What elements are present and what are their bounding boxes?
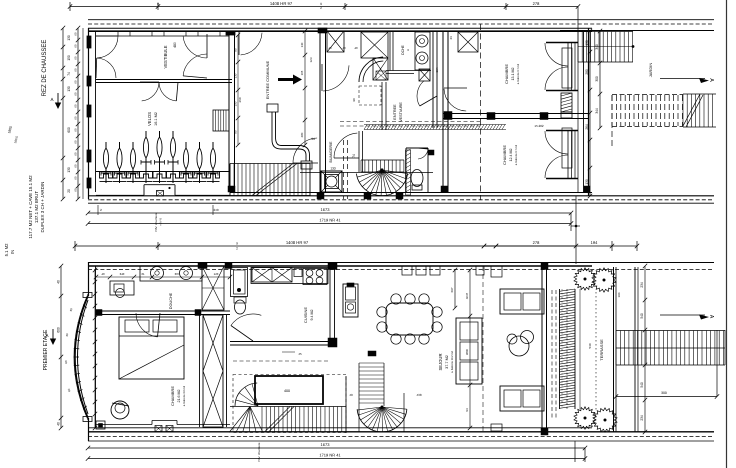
wall below douche xyxy=(96,310,230,312)
black wall chunks separating wall xyxy=(487,113,495,120)
stair opening thick rect xyxy=(255,376,323,404)
corridor entrance door arc xyxy=(241,33,262,55)
sejour dim chain x455 xyxy=(454,270,456,308)
top dimension drop line at x=578 xyxy=(577,7,579,31)
window mullion lines xyxy=(571,43,573,90)
svg-text:140: 140 xyxy=(300,42,304,47)
vestibule left door swing 2 xyxy=(97,58,116,78)
terrace connector verticals xyxy=(724,330,726,365)
svg-text:137.1 M2 BRUT: 137.1 M2 BRUT xyxy=(34,191,39,224)
svg-text:VESTIBULE: VESTIBULE xyxy=(163,45,168,68)
connector vertical x=576 xyxy=(575,196,577,264)
small duct box xyxy=(373,58,388,80)
right dim line 300 xyxy=(616,396,717,398)
tree bottom 2 xyxy=(593,408,617,432)
chambre13 door lower xyxy=(545,67,568,90)
svg-text:60: 60 xyxy=(74,104,78,108)
top dimension line 1408 HR 97 xyxy=(70,6,578,8)
main stair lower run xyxy=(230,406,346,408)
bottom connector vertical xyxy=(574,441,576,462)
black chunk chambre wall top xyxy=(198,263,207,269)
wall right of chambre xyxy=(199,315,201,427)
svg-text:60: 60 xyxy=(74,116,78,120)
svg-text:60: 60 xyxy=(74,44,78,48)
dche walls xyxy=(389,31,391,71)
douche counter xyxy=(140,266,202,281)
svg-text:280: 280 xyxy=(300,132,304,137)
svg-text:80: 80 xyxy=(234,130,238,134)
svg-text:234: 234 xyxy=(640,282,644,288)
svg-text:61: 61 xyxy=(141,272,145,276)
svg-text:74: 74 xyxy=(352,154,356,158)
dim chain right of building xyxy=(589,31,591,196)
svg-text:120: 120 xyxy=(214,272,219,276)
svg-text:a. balcons 3.7 m2: a. balcons 3.7 m2 xyxy=(514,144,518,165)
door arc corridor top xyxy=(293,138,317,163)
left dim chain bottom plan xyxy=(60,266,62,428)
lavabo circle 1 xyxy=(151,267,164,280)
light well square xyxy=(321,171,342,192)
left dim chain inner xyxy=(77,28,79,199)
svg-text:2: 2 xyxy=(236,246,238,250)
garden wall line xyxy=(634,267,636,432)
corner marker box xyxy=(96,421,105,429)
terrasse right wall xyxy=(613,267,615,432)
duct shaft X-box 2 xyxy=(361,32,388,58)
svg-text:A: A xyxy=(50,97,53,102)
small dim marks above 1673 xyxy=(97,205,99,215)
cuisine door arc xyxy=(231,314,261,326)
svg-text:BUANDERIE: BUANDERIE xyxy=(329,141,333,163)
bike rack rail xyxy=(96,171,230,173)
garden stair from building xyxy=(578,31,633,33)
left wall dim chain 3 xyxy=(82,28,84,199)
svg-text:60: 60 xyxy=(74,140,78,144)
dim line 1719 top plan xyxy=(88,223,571,225)
svg-text:DUPLEX 3 CH + JARDIN: DUPLEX 3 CH + JARDIN xyxy=(40,182,45,233)
chambre bottom niche xyxy=(96,424,152,426)
washer circle 2 xyxy=(416,52,428,64)
svg-text:540: 540 xyxy=(640,382,644,388)
svg-text:a. balcons 4.0 m2: a. balcons 4.0 m2 xyxy=(182,385,186,406)
garden stair lower right xyxy=(683,93,716,95)
black chunk sejour wall xyxy=(541,263,548,270)
svg-text:13.1 M2: 13.1 M2 xyxy=(511,68,515,81)
main stair diagonal xyxy=(264,407,290,433)
terrace dotted column xyxy=(595,292,597,410)
svg-text:194: 194 xyxy=(591,240,598,245)
wc door arc xyxy=(418,149,428,159)
svg-text:+0 /-6: +0 /-6 xyxy=(159,218,163,226)
vestiaire lower door xyxy=(417,81,424,106)
north arrow bottom xyxy=(660,314,705,316)
spiral staircase bottom plan xyxy=(358,363,360,406)
dining table xyxy=(386,303,433,335)
cuisine top counter xyxy=(251,268,328,284)
axis dashed line buanderie xyxy=(343,140,345,199)
cuisine closet X xyxy=(252,268,292,283)
chambre12 door lower xyxy=(545,155,568,178)
svg-text:16.1 M2: 16.1 M2 xyxy=(154,112,158,126)
vestiaire curved corner wall xyxy=(359,57,383,82)
street edge dashed line xyxy=(88,23,714,25)
svg-text:JARDIN: JARDIN xyxy=(648,63,653,78)
velos room bottom niche xyxy=(96,194,144,196)
svg-text:60: 60 xyxy=(74,32,78,36)
svg-text:540: 540 xyxy=(588,343,592,348)
tall braced closet xyxy=(203,315,223,427)
svg-text:600: 600 xyxy=(67,127,71,133)
svg-text:45: 45 xyxy=(298,352,302,356)
svg-text:SEJOUR: SEJOUR xyxy=(438,354,443,371)
svg-text:a: a xyxy=(157,1,159,5)
street edge solid line xyxy=(88,19,714,21)
svg-text:40: 40 xyxy=(328,46,332,50)
svg-text:CHAMBRE: CHAMBRE xyxy=(170,386,175,406)
bay window outer arc xyxy=(75,296,88,418)
tree top 2 xyxy=(592,268,616,292)
cuisine hob xyxy=(303,269,327,285)
velos double door to vestibule xyxy=(142,82,159,101)
chambre13 door upper xyxy=(545,43,568,66)
axis dashed vertical right wing xyxy=(480,24,482,200)
vestiaire shaft box xyxy=(458,32,478,52)
svg-text:60: 60 xyxy=(74,92,78,96)
wall velos/entree commune xyxy=(228,31,230,192)
sofa top xyxy=(500,289,544,314)
wall below vestibule xyxy=(96,79,232,81)
svg-text:A: A xyxy=(406,49,410,51)
washer counter xyxy=(415,32,430,70)
svg-text:240: 240 xyxy=(213,208,218,212)
svg-text:130: 130 xyxy=(67,167,71,173)
svg-text:105: 105 xyxy=(300,70,304,75)
hall dashed horizontals xyxy=(233,360,330,362)
svg-text:90: 90 xyxy=(352,98,356,102)
cuisine left unit bath xyxy=(231,268,248,297)
svg-text:40: 40 xyxy=(342,46,346,50)
svg-text:60: 60 xyxy=(74,128,78,132)
svg-text:ENTREE COMMUNE: ENTREE COMMUNE xyxy=(265,60,270,99)
bay window mullion ticks xyxy=(83,305,87,308)
svg-text:DOUCHE: DOUCHE xyxy=(169,292,173,309)
duct shaft X-box 1 xyxy=(327,31,344,52)
upper dim ticks row bottom plan xyxy=(96,276,230,278)
velos niche marker xyxy=(157,191,164,197)
svg-text:1673: 1673 xyxy=(321,442,331,447)
black chunk left of separating wall xyxy=(444,112,452,120)
top plan bottom wall xyxy=(88,195,714,197)
vestibule left door swing xyxy=(97,36,118,58)
svg-text:37.7 M2: 37.7 M2 xyxy=(445,355,449,369)
wall corridor/buanderie xyxy=(319,31,321,192)
dim line 1673 top plan xyxy=(88,212,571,214)
hall door arc from corridor xyxy=(323,65,349,91)
svg-text:280: 280 xyxy=(585,69,589,75)
garden stair bottom xyxy=(616,330,725,332)
glazing band xyxy=(559,289,561,409)
svg-text:60: 60 xyxy=(74,80,78,84)
window pier hatched xyxy=(561,93,572,112)
tub chair xyxy=(111,401,129,419)
spiral staircase xyxy=(382,170,408,174)
svg-text:2: 2 xyxy=(320,6,322,10)
svg-text:40: 40 xyxy=(57,422,61,426)
svg-text:5.1 M2: 5.1 M2 xyxy=(4,243,9,256)
chambre12 door lintels xyxy=(546,130,578,132)
svg-text:DCHE: DCHE xyxy=(401,44,405,54)
buanderie partition wall xyxy=(358,131,360,172)
svg-text:3800: 3800 xyxy=(465,348,469,355)
bay window inner arc xyxy=(78,300,89,414)
svg-text:60: 60 xyxy=(74,56,78,60)
svg-text:ENTREE: ENTREE xyxy=(393,104,397,120)
cuisine wc xyxy=(235,300,246,314)
wall below cuisine xyxy=(230,341,337,343)
svg-text:12.4 M2: 12.4 M2 xyxy=(509,149,513,162)
svg-text:133: 133 xyxy=(330,166,336,170)
bottom plan top wall xyxy=(88,262,714,264)
bed xyxy=(119,317,184,379)
chambre window frames right wall xyxy=(562,48,572,88)
mid dimension line 1408 xyxy=(75,245,576,247)
svg-text:340: 340 xyxy=(595,44,599,50)
lavabo circle 2 xyxy=(180,267,193,280)
pipe curve in corridor xyxy=(272,112,306,161)
svg-text:60: 60 xyxy=(74,68,78,72)
corridor inner dim line xyxy=(304,31,306,145)
sofa bottom xyxy=(500,386,544,411)
sheet right border line xyxy=(726,0,728,468)
svg-text:NIV. charniere: NIV. charniere xyxy=(154,212,158,231)
svg-text:340: 340 xyxy=(120,272,125,276)
entrance arrow xyxy=(278,75,302,85)
svg-text:480: 480 xyxy=(173,42,177,48)
svg-text:697: 697 xyxy=(450,287,454,292)
svg-text:300: 300 xyxy=(661,391,667,395)
svg-text:1673: 1673 xyxy=(321,207,331,212)
garden dashed walkway xyxy=(612,94,683,96)
chambre12 door upper xyxy=(545,131,568,154)
cuisine small box top xyxy=(294,269,302,277)
svg-text:a. balcons 13.2 m2: a. balcons 13.2 m2 xyxy=(450,350,454,372)
sofa left xyxy=(456,318,482,384)
top plan top wall xyxy=(88,27,592,29)
vestiaire wall xyxy=(432,31,434,128)
dim jog right xyxy=(570,213,572,231)
svg-text:94: 94 xyxy=(311,137,315,141)
top plan right wall xyxy=(588,28,590,196)
sejour dashed axis x483 xyxy=(482,266,484,432)
svg-text:60: 60 xyxy=(74,152,78,156)
svg-text:278: 278 xyxy=(533,240,540,245)
svg-text:150: 150 xyxy=(67,55,71,61)
svg-text:40: 40 xyxy=(101,272,105,276)
svg-text:94: 94 xyxy=(465,408,469,412)
svg-text:260: 260 xyxy=(238,97,242,102)
svg-text:344: 344 xyxy=(595,108,599,114)
svg-text:130: 130 xyxy=(67,35,71,41)
wc toilet xyxy=(411,170,423,187)
svg-text:60: 60 xyxy=(74,188,78,192)
bike symbols xyxy=(105,142,107,183)
wc side hatch band xyxy=(406,150,411,195)
douche door arc xyxy=(136,313,158,337)
terrace floor line xyxy=(579,289,581,409)
shower xbox douche xyxy=(202,266,224,310)
shelf comb unit xyxy=(213,110,229,131)
coffee table circles xyxy=(509,336,529,356)
svg-text:278: 278 xyxy=(533,1,540,6)
black wall chunk top xyxy=(318,28,327,33)
svg-text:44: 44 xyxy=(449,36,453,40)
svg-text:1719 NR 41: 1719 NR 41 xyxy=(319,217,341,222)
section arrow A bottom xyxy=(52,329,54,340)
terrasse dim chain xyxy=(644,266,646,432)
wc walls xyxy=(405,148,407,192)
insulation hatch band xyxy=(364,125,367,130)
svg-text:540: 540 xyxy=(640,313,644,319)
svg-text:20: 20 xyxy=(67,189,71,193)
sejour dim vertical x470 xyxy=(469,270,471,428)
vestibule right double door xyxy=(183,36,207,58)
svg-text:600: 600 xyxy=(57,327,61,333)
section arrow A top xyxy=(57,93,59,104)
landing line xyxy=(300,172,433,174)
wall left of chambre 13 xyxy=(442,31,444,192)
sejour dashed axis xyxy=(551,290,553,418)
svg-text:VESTIAIRE: VESTIAIRE xyxy=(399,102,403,122)
svg-text:264: 264 xyxy=(585,124,589,130)
svg-text:CHAMBRE: CHAMBRE xyxy=(504,64,509,84)
svg-text:CHAMBRE: CHAMBRE xyxy=(502,145,507,165)
svg-text:60: 60 xyxy=(74,176,78,180)
svg-text:300: 300 xyxy=(595,76,599,82)
inner dim chain bottom plan xyxy=(94,270,96,428)
svg-text:VELOS: VELOS xyxy=(147,112,152,126)
svg-text:194: 194 xyxy=(617,292,621,297)
dim line 1673 bottom xyxy=(88,447,585,449)
svg-text:74: 74 xyxy=(67,72,71,76)
sejour top wall niches xyxy=(402,266,412,275)
svg-text:130: 130 xyxy=(234,73,238,78)
svg-text:130: 130 xyxy=(585,179,589,185)
svg-text:1408 HR 97: 1408 HR 97 xyxy=(270,1,293,6)
svg-text:A: A xyxy=(45,333,48,338)
chambre hall door arc xyxy=(444,89,466,111)
corridor left dim ticks xyxy=(237,35,239,145)
svg-text:400: 400 xyxy=(284,389,290,393)
svg-text:1719 NR 41: 1719 NR 41 xyxy=(319,452,341,457)
stair hall dashed outline xyxy=(233,375,346,433)
chambre13 door lintels xyxy=(546,42,578,44)
svg-text:80: 80 xyxy=(234,48,238,52)
north arrow top xyxy=(660,78,705,80)
vestibule north wall inner face xyxy=(96,35,229,37)
top plan left wall window blocks xyxy=(87,36,91,48)
svg-text:9.4 M2: 9.4 M2 xyxy=(310,310,314,321)
left dim chain outer xyxy=(62,28,64,199)
buanderie door arc xyxy=(334,133,357,158)
corridor stair break line xyxy=(252,164,293,196)
svg-text:130: 130 xyxy=(67,86,71,92)
svg-text:9: 9 xyxy=(236,241,238,245)
svg-text:21.6 M2: 21.6 M2 xyxy=(177,390,181,403)
desk with chair xyxy=(110,281,134,295)
svg-text:40: 40 xyxy=(354,46,358,50)
svg-text:123: 123 xyxy=(309,57,313,62)
dim chain 2 right xyxy=(599,31,601,128)
bottom plan bottom wall xyxy=(88,431,714,433)
svg-text:REZ DE CHAUSSEE: REZ DE CHAUSSEE xyxy=(42,40,48,97)
svg-text:60: 60 xyxy=(74,164,78,168)
sejour/terrasse wall xyxy=(541,266,543,432)
wall poche bottom junctions xyxy=(364,193,371,199)
hall dashed box xyxy=(359,86,381,105)
tree top 1 xyxy=(574,268,596,290)
svg-text:130: 130 xyxy=(585,40,589,46)
washer circle 1 xyxy=(416,35,428,47)
tree bottom 1 xyxy=(574,407,596,429)
chambre separating wall xyxy=(443,113,588,115)
black chunk kitchen wall xyxy=(328,263,337,270)
bay window outer arc 2 xyxy=(74,294,88,420)
svg-text:1408 HR 97: 1408 HR 97 xyxy=(286,240,309,245)
svg-text:4647: 4647 xyxy=(465,292,469,299)
dim line 1719 bottom xyxy=(88,458,585,460)
bottom plan left wall xyxy=(88,262,90,296)
svg-text:CUISINE: CUISINE xyxy=(303,307,308,324)
svg-text:a. balcons 3.7 m2: a. balcons 3.7 m2 xyxy=(516,63,520,84)
sink column xyxy=(343,284,358,317)
wall cuisine right xyxy=(329,266,331,341)
mid dimension line 278/194 xyxy=(484,245,637,247)
svg-text:438: 438 xyxy=(416,393,421,397)
vestibule wall column right xyxy=(226,31,235,35)
svg-text:117.7 M2 NET + CAVE 15.1: 117.7 M2 NET + CAVE 15.1 M2 xyxy=(28,175,33,239)
top plan left wall xyxy=(88,28,90,199)
svg-text:15.202: 15.202 xyxy=(534,124,544,128)
corridor stair run xyxy=(230,163,310,165)
svg-text:TERRASSE: TERRASSE xyxy=(599,339,604,361)
garden top wall line xyxy=(560,30,714,32)
svg-text:40: 40 xyxy=(57,280,61,284)
svg-text:234: 234 xyxy=(640,415,644,421)
svg-text:40: 40 xyxy=(349,393,353,397)
section dashed line corridor xyxy=(340,121,480,123)
bottom niche boxes xyxy=(155,426,162,432)
svg-text:IN: IN xyxy=(10,250,15,254)
bay window end caps xyxy=(83,293,92,298)
small xbox below washers xyxy=(419,69,430,81)
svg-text:150: 150 xyxy=(234,101,238,106)
svg-text:307: 307 xyxy=(175,272,180,276)
